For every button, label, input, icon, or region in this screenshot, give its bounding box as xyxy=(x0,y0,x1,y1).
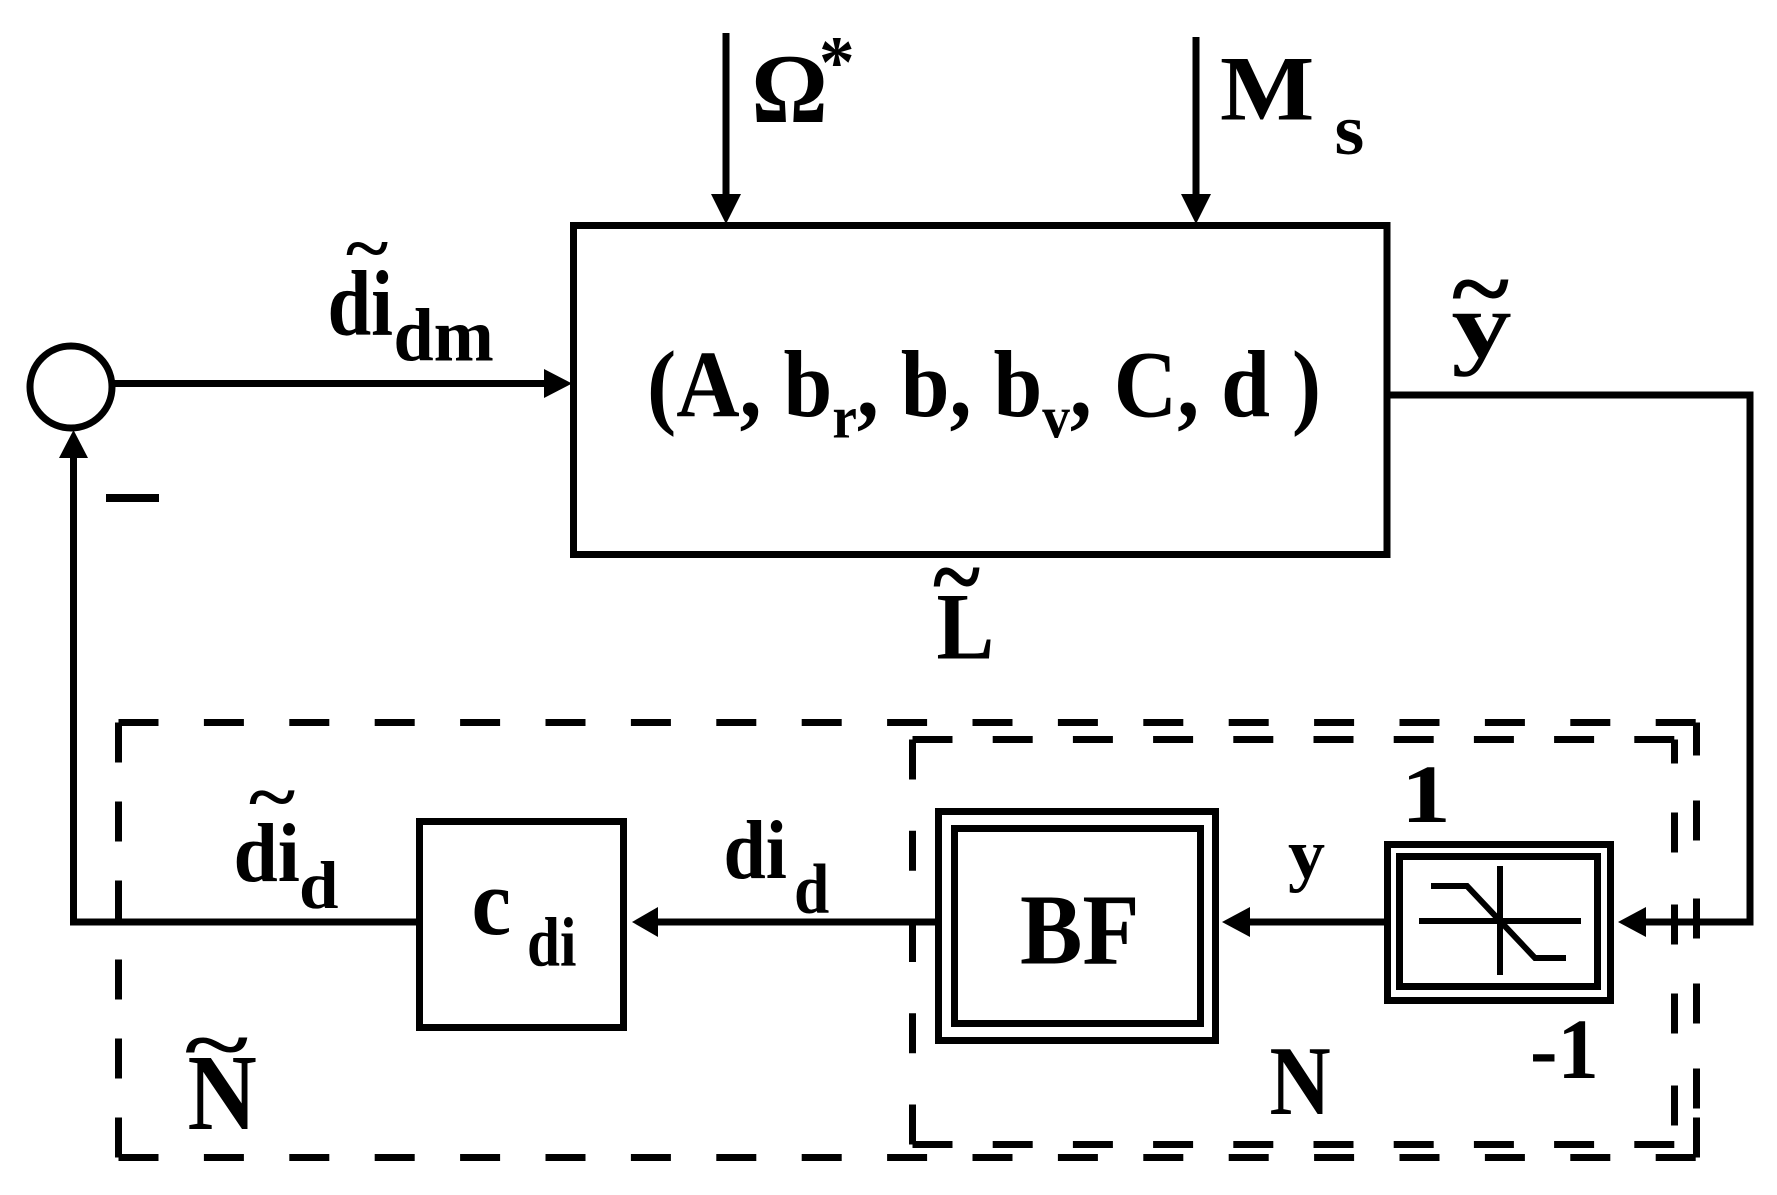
minus sign at summing junction xyxy=(106,494,159,502)
svg-text:-1: -1 xyxy=(1530,1001,1599,1097)
dashed box N~ left xyxy=(115,723,122,1158)
svg-text:~: ~ xyxy=(346,209,388,286)
svg-text:~: ~ xyxy=(1452,235,1509,344)
dashed box N~ bottom xyxy=(119,1154,1697,1161)
svg-text:dm: dm xyxy=(394,295,494,378)
wire: di_dm from summer to plant xyxy=(112,380,548,387)
dashed box N top xyxy=(913,736,1675,743)
wire: saturation output to BF xyxy=(1248,919,1384,926)
wire: BF output di_d to c_di xyxy=(656,919,935,926)
saturation icon vertical axis xyxy=(1497,866,1503,975)
wire: output y~ from plant right, down right side xyxy=(1387,395,1750,922)
svg-text:Ω: Ω xyxy=(752,36,828,144)
svg-text:di: di xyxy=(724,804,787,897)
plant block L (A, b_r, b, b_v, C, d) xyxy=(574,226,1388,555)
dashed box N bottom xyxy=(913,1141,1675,1148)
svg-text:d: d xyxy=(794,851,829,929)
BF block inner border xyxy=(955,829,1201,1024)
svg-text:di: di xyxy=(527,905,576,982)
svg-text:~: ~ xyxy=(933,521,980,632)
saturation block inner border xyxy=(1400,857,1598,987)
dashed box N~ right xyxy=(1693,723,1700,1158)
dashed box N~ top xyxy=(119,719,1697,726)
svg-text:1: 1 xyxy=(1401,748,1451,840)
svg-text:y: y xyxy=(1288,816,1325,894)
svg-text:~: ~ xyxy=(249,756,295,837)
svg-text:*: * xyxy=(819,22,855,104)
svg-text:M: M xyxy=(1220,38,1314,140)
dashed box N right xyxy=(1671,740,1678,1145)
svg-text:(A, br, b, bv, C, d ): (A, br, b, bv, C, d ) xyxy=(647,332,1321,451)
wire: reference input Omega* down arrow xyxy=(723,33,730,200)
saturation icon curve xyxy=(1431,886,1566,958)
saturation block outer border xyxy=(1388,845,1611,1001)
dashed box N left xyxy=(909,740,916,1145)
svg-text:BF: BF xyxy=(1020,874,1140,986)
summing junction xyxy=(30,346,112,428)
svg-text:d: d xyxy=(299,848,339,923)
svg-text:N: N xyxy=(1270,1028,1331,1136)
c_di block xyxy=(420,822,624,1028)
BF block outer border xyxy=(939,812,1216,1041)
svg-text:~: ~ xyxy=(185,1001,248,1088)
wire: disturbance M_s down arrow xyxy=(1193,37,1200,200)
saturation icon horizontal axis xyxy=(1419,918,1581,924)
svg-text:c: c xyxy=(472,851,512,955)
wire: c_di output left and up to summer xyxy=(74,452,420,922)
svg-text:s: s xyxy=(1335,90,1365,170)
